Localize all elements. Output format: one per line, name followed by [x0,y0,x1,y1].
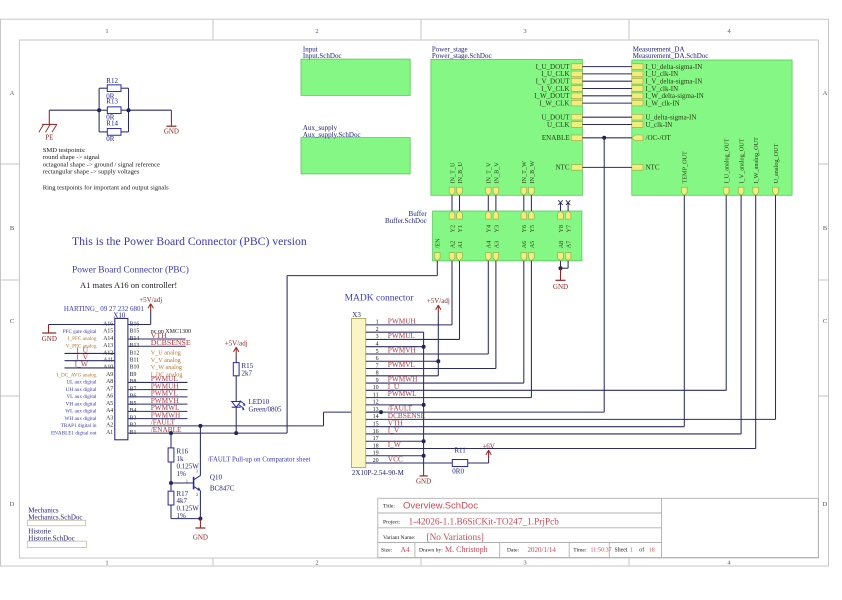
sheet entry Measurement_DA I_U_clk-IN [632,70,678,78]
svg-text:TRAP1 digital in: TRAP1 digital in [61,423,97,429]
wire R17 to emitter [171,505,200,519]
sheet entry Measurement_DA I_U_analog_OUT [723,138,730,195]
svg-text:A15: A15 [103,329,113,335]
svg-text:2X10P-2.54-90-M: 2X10P-2.54-90-M [352,469,405,477]
sheet entry Measurement_DA I_V_clk-IN [632,85,678,93]
wire I_V_CLK [582,88,631,90]
sheet entry Power_stage IN_B_W [529,161,536,196]
svg-text:VL aux digital: VL aux digital [66,394,97,400]
no-connect stub Y8 [558,200,562,211]
svg-text:PFC gate digital: PFC gate digital [63,329,97,335]
svg-text:A13: A13 [103,343,113,349]
wire collector to /FAULT [199,426,201,476]
svg-text:X3: X3 [352,311,361,319]
wire I_U_CLK [582,73,631,75]
ground GND (X3) [416,468,431,486]
junction pin19 GND [422,454,426,458]
wire B_V to buffer [495,195,497,211]
svg-text:Measurement_DA.SchDoc: Measurement_DA.SchDoc [633,52,709,60]
sheet entry Measurement_DA U_analog_OUT [773,143,780,195]
sheet entry Measurement_DA /OC-/OT [632,134,672,142]
power +5V/adj (X10) [139,296,162,312]
svg-text:3: 3 [523,560,526,567]
svg-text:Input.SchDoc: Input.SchDoc [303,52,342,60]
svg-text:PE: PE [45,133,53,141]
svg-text:IN_T_U: IN_T_U [449,162,456,183]
svg-text:I_W_clk-IN: I_W_clk-IN [646,99,680,107]
svg-text:A: A [10,90,15,97]
sheet entry Buffer Y8 [558,211,565,233]
note SMD testpoints [43,147,160,175]
wire R15 to LED10 [235,376,237,402]
sheet entry Buffer Y1 [457,211,464,233]
wire /ENABLE (B1) [128,432,287,434]
svg-text:PWMUH: PWMUH [388,317,417,326]
sheet entry Buffer A2 [449,241,456,261]
wire T_W to buffer [523,195,525,211]
svg-text:18: 18 [649,548,655,554]
svg-text:Sheet: Sheet [615,548,628,554]
wire PWMVH (B side) [128,403,188,405]
wire R11 to +6V [468,462,489,464]
svg-text:IN_B_U: IN_B_U [457,162,464,184]
svg-text:U_analog_OUT: U_analog_OUT [773,143,780,183]
svg-text:I_W_analog_OUT: I_W_analog_OUT [753,137,760,184]
wire I_W (X10) [65,367,115,369]
svg-text:B12: B12 [130,350,140,356]
sheet entry Power_stage IN_T_U [449,162,456,195]
sheet symbol Input [301,45,410,95]
wire PWMUH (B side) [128,389,188,391]
sheet entry Power_stage U_CLK [547,121,582,129]
svg-text:1: 1 [105,560,108,567]
svg-text:B: B [10,225,15,232]
title block [378,498,819,557]
svg-text:A6: A6 [521,241,528,249]
svg-text:A1: A1 [457,241,464,249]
svg-text:+6V: +6V [482,443,495,451]
svg-text:1-42026-1.1.B6SiCKit-TO247_1.P: 1-42026-1.1.B6SiCKit-TO247_1.PrjPcb [409,517,560,527]
svg-text:R12: R12 [106,77,118,85]
connector X3 MADK [345,294,415,477]
wire X3 pin11 PWMWL [366,261,532,398]
sheet entry Buffer Y3 [493,211,500,233]
wire pin14 DCBSENSE to U_analog_OUT [366,195,776,419]
svg-text:Power_stage.SchDoc: Power_stage.SchDoc [432,52,492,60]
svg-text:A5: A5 [106,401,113,407]
svg-text:MADK connector: MADK connector [345,294,415,304]
sheet entry Measurement_DA NTC [632,164,660,172]
svg-text:A4: A4 [106,408,113,414]
wire pin15 VTH to TEMP_OUT [366,195,685,426]
transistor Q10 [186,469,235,498]
svg-text:NTC: NTC [556,164,570,172]
wire DCBSENSE (B13) [128,345,186,347]
resistor R11 [452,446,467,475]
svg-text:U_CLK: U_CLK [547,121,570,129]
wire B_W to buffer [530,195,532,211]
svg-text:ENABLE1 digital out: ENABLE1 digital out [51,430,97,436]
svg-text:Ring testpoints for important: Ring testpoints for important and output… [43,184,169,191]
sheet entry Buffer A7 [565,241,572,261]
wire PWMWL (B side) [128,410,188,412]
junction base node [169,481,173,485]
wire U_DOUT [582,116,631,118]
svg-text:IN_B_W: IN_B_W [529,161,536,184]
junction pin13 /FAULT [379,410,383,414]
wire PE net [49,88,171,132]
wire I_U (X10) [65,352,115,354]
sheet symbol Power_stage U_PowerStage [431,45,583,195]
svg-text:0R0: 0R0 [452,467,464,475]
sheet entry Measurement_DA I_U_delta-sigma-IN [632,63,702,71]
wire I_V (X10) [65,360,115,362]
resistor R17 [168,490,199,520]
junction /ENABLE LED10 [234,431,238,435]
svg-text:+5V/adj: +5V/adj [427,297,450,305]
svg-text:TEMP_OUT: TEMP_OUT [682,151,689,184]
svg-text:Y2: Y2 [449,225,456,233]
svg-text:A4: A4 [486,241,493,249]
svg-text:/FAULT Pull-up on Comparator s: /FAULT Pull-up on Comparator sheet [208,456,311,463]
sheet entry Measurement_DA I_W_delta-sigma-IN [632,92,704,100]
wire pin18 I_W to I_W_analog_OUT [366,195,756,448]
junction pin17 GND [422,439,426,443]
svg-text:A4: A4 [401,545,410,554]
wire pin10 I_U [366,195,726,390]
svg-text:A1 mates A16 on controller!: A1 mates A16 on controller! [80,280,177,290]
svg-text:A6: A6 [106,394,113,400]
wire X3 pin7 PWMVL [366,261,496,369]
svg-text:SMD testpoints:: SMD testpoints: [43,147,86,154]
wire I_W_CLK [582,102,631,104]
svg-text:A2: A2 [106,423,113,429]
sheet entry Measurement_DA I_V_analog_OUT [738,138,745,195]
svg-text:GND: GND [553,283,568,291]
svg-text:A3: A3 [106,415,113,421]
sheet entry Buffer /EN [435,238,442,261]
svg-text:1: 1 [105,28,108,35]
wire I_W_DOUT [582,95,631,97]
resistor R15 [233,362,253,378]
wire PWMVL (B side) [128,396,188,398]
svg-text:ENABLE: ENABLE [542,134,570,142]
sheet symbol Buffer [385,210,582,261]
sheet entry Power_stage IN_T_W [521,161,528,195]
sheet entry Buffer Y2 [449,211,456,233]
wire base [171,482,194,484]
svg-text:V_W analog: V_W analog [151,364,182,371]
sheet entry Power_stage IN_B_V [493,162,500,196]
sheet symbol Aux_supply [301,124,410,174]
wire /ENABLE to R16 [170,433,172,448]
svg-text:2: 2 [315,28,318,35]
power +6V [482,443,495,463]
ground GND (buffer) [553,268,568,291]
svg-text:Power Board Connector (PBC): Power Board Connector (PBC) [72,265,189,276]
svg-text:/EN: /EN [435,238,442,248]
sheet entry Buffer A3 [493,241,500,261]
sheet symbol Measurement_DA [632,45,792,195]
svg-text:Q10: Q10 [210,474,223,482]
resistor R12 [106,77,121,100]
sheet entry Buffer Y6 [521,211,528,233]
svg-text:M. Christoph: M. Christoph [445,545,488,554]
svg-text:NTC: NTC [646,164,660,172]
wire ENABLE //OC-/OT /FAULT net [324,138,632,426]
wire /FAULT (B2) [128,425,324,427]
svg-text:/OC-/OT: /OC-/OT [646,134,672,142]
svg-text:I_W_CLK: I_W_CLK [540,99,570,107]
sheet entry Power_stage I_U_DOUT [536,63,583,71]
svg-text:round shape -> signal: round shape -> signal [43,154,100,161]
wire VTH (B14) [128,338,186,340]
wire B_U to buffer [459,195,461,211]
svg-text:/ENABLE: /ENABLE [151,425,182,434]
wire NTC [582,166,631,168]
wire A8 A7 to ground [561,261,569,268]
svg-text:Y4: Y4 [486,225,493,233]
ground GND (R14 net) [164,110,179,135]
wire B16 to +5V/adj [128,312,151,325]
svg-text:Y1: Y1 [457,225,464,233]
sheet entry Buffer A6 [521,241,528,261]
wire I_U_DOUT [582,66,631,68]
svg-text:2020/1/14: 2020/1/14 [528,546,557,554]
svg-text:Project:: Project: [383,519,401,525]
svg-text:WH aux digital: WH aux digital [65,416,98,422]
svg-text:B15: B15 [130,329,140,335]
sheet entry Measurement_DA U_delta-sigma-IN [632,114,697,122]
sheet entry Measurement_DA TEMP_OUT [682,151,689,195]
svg-text:B9: B9 [130,372,137,378]
sheet entry Power_stage I_V_CLK [541,85,582,93]
wire pin6 pin8 +5V [366,361,439,376]
sheet entry Measurement_DA I_W_clk-IN [632,99,680,107]
wire LED10 to /ENABLE [235,407,237,433]
svg-text:A: A [823,90,828,97]
svg-text:0R: 0R [106,135,115,143]
sheet entry Power_stage U_DOUT [542,114,583,122]
sheet entry Buffer A4 [486,241,493,261]
svg-text:A8: A8 [558,241,565,249]
resistor R13 [106,97,121,121]
resistor R14 [106,119,121,143]
sheet entry Power_stage I_U_CLK [541,70,582,78]
wire PWMUL (B side) [128,381,188,383]
svg-text:This is the Power Board Connec: This is the Power Board Connector (PBC) … [72,235,307,248]
svg-text:Aux_supply.SchDoc: Aux_supply.SchDoc [303,131,361,139]
svg-text:Buffer.SchDoc: Buffer.SchDoc [385,217,427,225]
earth ground PE [39,110,57,141]
svg-text:WL aux digital: WL aux digital [65,409,97,415]
sheet entry Power_stage I_V_DOUT [536,78,583,86]
svg-text:A14: A14 [103,336,113,342]
wire X3 pin3 PWMUL [366,261,460,340]
svg-text:I_U_analog_OUT: I_U_analog_OUT [724,138,731,183]
sheet entry Power_stage IN_T_V [486,162,493,195]
sheet entry Power_stage I_W_CLK [540,99,583,107]
svg-text:11:50:37: 11:50:37 [591,548,612,554]
svg-text:B: B [823,225,828,232]
wire X3 pin5 PWMVH [366,261,489,354]
wire I_V_DOUT [582,80,631,82]
junction A8/A7 [559,266,563,270]
svg-text:R14: R14 [106,119,118,127]
sheet entry Buffer Y4 [486,211,493,233]
svg-text:UH aux digital: UH aux digital [66,387,97,393]
svg-text:IN_B_V: IN_B_V [493,162,500,184]
svg-text:DCBSENSE: DCBSENSE [151,338,191,347]
svg-text:Time:: Time: [573,548,587,554]
junction node R13 left [97,108,101,112]
sheet entry Measurement_DA I_W_analog_OUT [753,137,760,195]
sheet entry Measurement_DA I_V_delta-sigma-IN [632,78,702,86]
sheet entry Power_stage I_W_DOUT [534,92,582,100]
svg-text:1%: 1% [177,470,187,478]
svg-text:Green/0805: Green/0805 [249,405,283,413]
svg-text:Size:: Size: [381,548,393,554]
svg-text:1: 1 [630,548,633,554]
power +5V/adj (R15) [225,340,248,363]
sheet entry Buffer Y5 [529,211,536,233]
svg-text:Y7: Y7 [566,225,573,233]
svg-text:GND: GND [42,335,57,343]
wire pin13 stub [366,411,381,413]
wire pin20 VCC [366,462,453,464]
wire X3 pin9 PWMWH [366,261,524,383]
svg-text:B11: B11 [130,358,140,364]
svg-text:A1: A1 [106,430,113,436]
svg-text:Variant Name:: Variant Name: [383,535,416,541]
svg-text:A9: A9 [106,372,113,378]
svg-text:+5V/adj: +5V/adj [225,340,248,348]
svg-text:B10: B10 [130,365,140,371]
svg-text:C: C [823,318,827,325]
svg-text:Title:: Title: [383,503,395,509]
resistor R16 [168,447,199,478]
junction ENABLE branch [602,136,606,140]
sheet symbol Mechanics [27,507,85,526]
wire A16 to GND [49,324,115,326]
svg-text:V_V analog: V_V analog [151,357,181,364]
wire base node to R17 [170,483,172,491]
svg-text:V_U analog: V_U analog [151,350,181,357]
svg-text:GND: GND [416,478,431,486]
junction /FAULT Q10 collector [198,424,202,428]
svg-text:BC847C: BC847C [210,484,235,492]
svg-text:A2: A2 [449,241,456,249]
svg-text:C: C [10,318,14,325]
svg-text:D: D [823,501,828,508]
svg-text:2: 2 [196,492,198,497]
svg-text:Drawn by:: Drawn by: [419,548,443,554]
junction pin6 +5V [436,359,440,363]
svg-text:Y5: Y5 [529,225,536,233]
svg-text:A7: A7 [566,241,573,249]
svg-text:Y3: Y3 [493,225,500,233]
svg-text:Date:: Date: [507,548,520,554]
svg-text:2: 2 [315,560,318,567]
svg-text:IN_T_V: IN_T_V [486,162,493,183]
sheet entry Measurement_DA U_clk-IN [632,121,673,129]
wire R16 to base node [170,462,172,483]
junction pin12 GND [422,403,426,407]
svg-text:R13: R13 [106,97,118,105]
connector X10 HARTING [64,305,145,440]
sheet entry Buffer Y7 [565,211,572,233]
svg-text:I_PFC analog: I_PFC analog [68,336,97,342]
svg-text:A8: A8 [106,379,113,385]
svg-text:VH aux digital: VH aux digital [66,401,97,407]
svg-text:UL aux digital: UL aux digital [66,380,97,386]
svg-text:Y6: Y6 [521,225,528,233]
svg-text:+5V/adj: +5V/adj [139,296,162,304]
ground GND (Q10) [193,519,208,542]
sheet entry Buffer A8 [558,241,565,261]
svg-text:octagonal shape -> ground / si: octagonal shape -> ground / signal refer… [43,161,160,168]
no-connect stub Y7 [566,200,570,211]
svg-text:I_V_analog_OUT: I_V_analog_OUT [739,138,746,183]
svg-text:U_clk-IN: U_clk-IN [646,121,673,129]
wire T_V to buffer [487,195,489,211]
sheet entry Power_stage ENABLE [542,134,583,142]
wire U_CLK [582,124,631,126]
svg-text:IN_T_W: IN_T_W [521,161,528,183]
sheet entry Power_stage NTC [556,164,583,172]
svg-text:of: of [639,547,644,554]
svg-text:A5: A5 [529,241,536,249]
ground GND (X10 A16) [42,325,57,343]
svg-text:GND: GND [164,128,179,136]
wire pin16 I_V to I_V_analog_OUT [366,195,741,434]
svg-text:D: D [10,501,15,508]
wire T_U to buffer [451,195,453,211]
svg-text:R11: R11 [454,446,466,454]
svg-text:rectangular shape -> supply vo: rectangular shape -> supply voltages [43,168,140,175]
svg-text:GND: GND [193,534,208,542]
svg-text:Y8: Y8 [558,225,565,233]
wire GND chain even pins [366,332,424,468]
sheet entry Power_stage IN_B_U [457,162,464,196]
svg-text:HARTING_ 09 27 232 6801: HARTING_ 09 27 232 6801 [64,305,145,313]
svg-text:3: 3 [523,28,526,35]
svg-text:[No Variations]: [No Variations] [427,533,484,543]
sheet symbol Historie [27,527,86,547]
wire emitter down [199,491,201,519]
wire X3 pin1 PWMUH [366,261,452,325]
svg-text:1: 1 [186,478,188,483]
junction /ENABLE R16 [169,431,173,435]
sheet entry Buffer A1 [457,241,464,261]
wire PWMWH (B side) [128,418,188,420]
sheet entry Buffer A5 [529,241,536,261]
svg-text:2k7: 2k7 [242,370,253,378]
svg-text:Overview.SchDoc: Overview.SchDoc [403,500,478,511]
svg-text:I_W: I_W [75,360,89,369]
junction emitter node [198,517,202,521]
svg-text:A3: A3 [493,241,500,249]
junction node R13 right [127,108,131,112]
power +5V/adj (X3) [427,297,450,376]
svg-text:I_DC_AVG analog: I_DC_AVG analog [57,372,97,378]
wire /EN buffer to /ENABLE [287,261,437,433]
junction pin4 GND [422,345,426,349]
svg-text:A7: A7 [106,386,113,392]
LED LED10 [232,398,282,413]
